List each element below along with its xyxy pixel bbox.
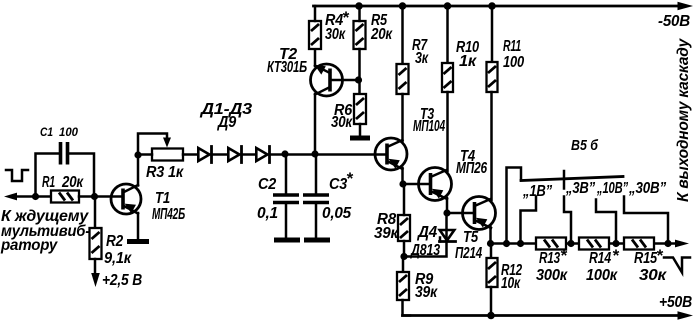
svg-text:100: 100: [503, 54, 524, 71]
diode D1: [198, 147, 211, 163]
capacitor C3: [303, 155, 354, 239]
wire node J to R12: [490, 244, 493, 259]
svg-text:К выходному каскаду: К выходному каскаду: [675, 37, 692, 202]
node M junction dot (tap 1В): [517, 240, 524, 247]
wire R2 to +2,5V arrow: [94, 259, 97, 274]
wire D1 to D2: [212, 153, 229, 156]
capacitor C1: [40, 125, 78, 165]
svg-text:+2,5 В: +2,5 В: [102, 272, 142, 289]
svg-text:1к: 1к: [459, 53, 477, 70]
wire rail to R10: [446, 6, 449, 63]
svg-text:9,1к: 9,1к: [104, 250, 132, 267]
node N junction dot (tap 3В): [567, 240, 574, 247]
wire R7 to T3 collector: [401, 94, 404, 141]
node H junction dot (T4e/Д4/T5b): [443, 209, 450, 216]
wire +50V bottom rail: [403, 314, 680, 317]
label Д1-Д3 Д9: [199, 101, 253, 131]
wire node H to Д4: [445, 213, 448, 241]
ground bar T1 emitter: [127, 239, 149, 244]
node K junction dot bottom rail: [487, 312, 495, 320]
svg-text:R3 1к: R3 1к: [146, 164, 184, 181]
wire R10 to T4 collector: [446, 92, 449, 171]
wire T3 emitter to node G: [401, 168, 404, 184]
svg-text:3к: 3к: [415, 50, 429, 67]
wire D3 to T3 base: [270, 153, 387, 156]
resistor R10: [442, 39, 479, 92]
svg-text:R11: R11: [503, 38, 521, 55]
node L junction dot (switch common): [503, 240, 510, 247]
resistor R7: [397, 37, 430, 94]
wire node B to R2: [94, 197, 97, 229]
wire R9 to bottom rail corner: [403, 300, 411, 316]
switch B5 wiper tick: [563, 171, 566, 189]
resistor R12: [487, 258, 523, 292]
diode D3: [256, 147, 269, 163]
svg-text:20к: 20к: [61, 174, 84, 191]
wire R8 to node I: [403, 241, 406, 257]
wire C1 left branch: [36, 154, 59, 197]
node J junction dot (T5e/R12): [487, 240, 494, 247]
node E junction dot (C3 / T2 tap): [311, 150, 318, 157]
svg-text:0,05: 0,05: [322, 205, 352, 222]
svg-text:30к: 30к: [331, 114, 353, 131]
wire T2 bottom leg to node E: [314, 94, 317, 154]
resistor R5: [354, 12, 394, 49]
svg-text:Т5: Т5: [463, 229, 478, 246]
wire -50V top rail: [314, 5, 680, 8]
switch contact „10В": [596, 180, 628, 244]
wire rail to R5: [358, 6, 361, 21]
svg-text:Д9: Д9: [216, 114, 236, 131]
svg-text:В5 б: В5 б: [571, 137, 599, 154]
wire R6 to ground: [359, 124, 362, 136]
transistor T4 МП26: [419, 148, 488, 201]
wire C1 right branch: [70, 154, 95, 197]
node I junction dot (R8/R9/Д4): [400, 253, 407, 260]
wire output line: [491, 242, 678, 245]
node A junction dot: [32, 193, 39, 200]
resistor R9: [397, 271, 438, 301]
wire T5 emitter to output line: [489, 227, 492, 244]
arrow output line: [675, 240, 689, 248]
svg-text:0,1: 0,1: [257, 205, 278, 222]
wire T2 top leg to R4: [314, 49, 317, 66]
svg-text:R13: R13: [539, 250, 560, 267]
svg-text:30к: 30к: [325, 26, 346, 43]
svg-text:R15: R15: [634, 250, 657, 267]
ground bar C3: [304, 238, 330, 243]
svg-text:+50В: +50В: [659, 294, 692, 311]
svg-text:„10В”: „10В”: [596, 180, 628, 197]
arrow +2,5V: [91, 273, 100, 287]
arrow +50V rail: [678, 311, 694, 319]
junction dot rail R11: [488, 2, 496, 10]
svg-text:20к: 20к: [370, 26, 393, 43]
svg-text:„30В”: „30В”: [628, 180, 666, 197]
pulse waveform icon: [6, 170, 28, 181]
node C junction dot (T1 collector / R3): [134, 151, 141, 158]
sawtooth waveform icon: [664, 258, 690, 273]
wire Д4 to node I: [404, 242, 447, 257]
wire R12 to bottom rail: [490, 287, 493, 316]
transistor T3 МП104: [375, 106, 445, 170]
wire R1 to T1 base: [79, 195, 122, 198]
switch B5 common wire: [507, 168, 522, 244]
wire node C to R3: [138, 153, 152, 156]
svg-text:R2: R2: [106, 233, 124, 250]
resistor R8: [374, 211, 410, 242]
svg-text:С3: С3: [329, 176, 348, 193]
capacitor C2: [257, 155, 299, 239]
resistor R6: [331, 94, 366, 131]
svg-text:ратору: ратору: [0, 237, 59, 254]
svg-text:10к: 10к: [501, 275, 521, 292]
resistor R3 (variable): [146, 149, 184, 182]
switch contact „30В": [624, 180, 668, 244]
resistor R14: [579, 238, 620, 285]
diode D2: [228, 147, 241, 163]
svg-text:300к: 300к: [536, 267, 568, 284]
wire node G to T4 base: [403, 183, 430, 186]
resistor R13: [536, 238, 568, 285]
ground bar C2: [274, 238, 300, 243]
wire R5 to node F: [358, 49, 361, 80]
node B junction dot (R1/C1/R2/T1 base): [91, 193, 98, 200]
node D junction dot (C2 tap): [281, 150, 288, 157]
svg-text:„1В”: „1В”: [522, 183, 552, 200]
svg-text:МП104: МП104: [413, 118, 445, 135]
resistor R11: [487, 38, 525, 92]
ground bar R6: [350, 136, 370, 141]
svg-text:„3В”: „3В”: [565, 180, 595, 197]
svg-text:39к: 39к: [415, 284, 438, 301]
resistor R4: [309, 8, 350, 49]
junction dot rail R7: [399, 2, 407, 10]
wire node F to R6: [358, 80, 361, 94]
svg-text:30к: 30к: [639, 267, 667, 284]
wire node G to R8: [403, 184, 406, 215]
transistor T1 МП42Б: [111, 184, 185, 223]
node P junction dot (tap 30В): [664, 240, 671, 247]
wire T1 emitter down: [137, 213, 140, 240]
svg-text:С2: С2: [258, 176, 277, 193]
junction dot rail R5: [355, 2, 363, 10]
node G junction dot (T3e/T4b/R8): [399, 180, 406, 187]
wire R3 wiper loop: [138, 134, 167, 156]
svg-text:С1: С1: [40, 125, 53, 139]
svg-text:Т1: Т1: [155, 190, 170, 207]
arrow -50V rail: [678, 2, 694, 10]
node F junction dot (R5/R6/T2 base): [355, 76, 362, 83]
svg-text:39к: 39к: [374, 225, 399, 242]
wire rail to R11: [491, 6, 494, 62]
resistor R1: [42, 174, 84, 203]
zener diode Д4 Д813: [409, 224, 455, 259]
junction dot rail R10: [444, 2, 452, 10]
wire R11 to T5 collector: [490, 92, 493, 200]
arrow R3 wiper: [163, 138, 171, 148]
svg-text:П214: П214: [455, 245, 482, 262]
wire R3 to D1: [183, 153, 198, 156]
resistor R2: [90, 228, 133, 267]
label input "К ждущему мультивибратору": [0, 208, 90, 254]
svg-text:МП26: МП26: [456, 160, 487, 177]
svg-text:R1: R1: [42, 174, 55, 191]
wire D2 to D3: [242, 153, 257, 156]
wire T4 emitter to node H: [446, 198, 449, 213]
wire T1 collector up: [137, 155, 140, 186]
resistor R15: [624, 238, 667, 285]
wire T2 base to node F: [330, 79, 359, 82]
transistor T2 КТ301Б: [267, 46, 343, 96]
wire rail to R7: [401, 6, 404, 64]
transistor T5 П214: [455, 197, 496, 263]
svg-text:R14: R14: [589, 250, 611, 267]
svg-text:100к: 100к: [586, 267, 618, 284]
svg-text:МП42Б: МП42Б: [152, 206, 185, 223]
input arrow left: [4, 193, 17, 201]
svg-text:-50В: -50В: [658, 13, 690, 30]
wire node I to R9: [402, 257, 405, 273]
switch contact „1В": [521, 183, 553, 244]
wire node H to T5 base: [447, 212, 474, 215]
switch contact „3В": [564, 180, 595, 244]
switch B5 bar: [521, 177, 623, 181]
wire input to node A: [14, 195, 51, 198]
svg-text:Д4: Д4: [416, 224, 438, 241]
svg-text:КТ301Б: КТ301Б: [267, 59, 307, 76]
svg-text:100: 100: [59, 125, 78, 139]
wire R4 top to rail corner: [314, 6, 317, 21]
node O junction dot (tap 10В): [612, 240, 619, 247]
